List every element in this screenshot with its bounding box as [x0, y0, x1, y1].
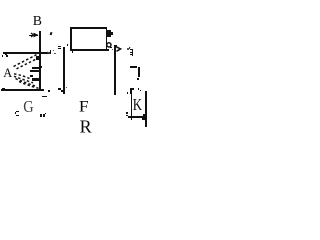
upper dashed diagonal 2 [17, 58, 39, 69]
extension line under B [39, 31, 41, 55]
hook at right line top [114, 45, 116, 47]
dash at center line bottom [58, 88, 60, 89]
tick below body bottom-left corner [72, 51, 74, 53]
tick below top line start [5, 54, 7, 56]
upper dashed diagonal 1 [14, 55, 37, 67]
motor body: bottom edge [70, 49, 109, 51]
brush dash left [30, 75, 33, 77]
tiny squiggle right of G [40, 114, 42, 117]
dots near bushing [110, 47, 112, 49]
tiny equals mark [58, 46, 61, 47]
thicker start blob of bottom line [2, 88, 5, 89]
letter A [0, 0, 150, 150]
left view top line [3, 52, 51, 54]
brush stub upper left 2 [36, 58, 39, 60]
faint dot right of line bottom [66, 87, 67, 88]
lower dashed arc 3 [16, 79, 37, 87]
small tick near rect left [67, 44, 69, 46]
terminal block [106, 30, 111, 37]
faint smudge right of chevron [127, 48, 129, 50]
dot pair right [138, 88, 140, 90]
K dimension line [128, 116, 147, 118]
lower dashed arc 2 [14, 76, 33, 83]
left view bottom line [1, 89, 44, 91]
dot pair below line start [2, 55, 4, 57]
right line nub 2 / dot [142, 118, 144, 120]
lower dashed arc 4 [19, 82, 39, 89]
dimension arrow for B [29, 35, 38, 36]
bracket shape (bar, vertical, dot) [130, 66, 138, 68]
dot right of center line top [64, 47, 65, 48]
letter B [0, 0, 150, 150]
brush stub upper left 1 [36, 56, 39, 58]
letter K [0, 0, 150, 150]
letter R [0, 0, 150, 150]
K dimension left extension line [131, 94, 133, 120]
tiny backwards-E mark [132, 49, 134, 56]
motor body rectangle: top edge [70, 27, 107, 29]
K dimension right extension line [145, 91, 147, 127]
top line right hook [50, 50, 51, 53]
dash below left view [42, 96, 47, 98]
brush bar left 1 [32, 67, 39, 69]
right line nub 1 [143, 114, 145, 116]
dot at center line bottom [61, 90, 63, 92]
bushing ring [0, 0, 150, 150]
faint diagonal dash near view corner [46, 52, 49, 55]
brush stub right [41, 66, 43, 68]
svg-text:R: R [80, 117, 92, 137]
motor body: left edge [70, 27, 72, 49]
terminal pin tick [111, 32, 113, 34]
diagonal tick above [129, 47, 131, 50]
tick mark right of B line [49, 31, 52, 35]
commutator vertical bar [39, 53, 41, 89]
center extension line [63, 47, 65, 95]
letter F [0, 0, 150, 150]
arrowhead of B dimension [0, 0, 150, 150]
dot pair between views [53, 50, 55, 52]
lower dashed arc 1 [14, 74, 30, 79]
dot below left view [48, 90, 50, 92]
right extension line [114, 45, 116, 95]
flux dashed lines (SVG) [0, 0, 150, 150]
dots left of K dimension line [126, 112, 128, 114]
tiny stacked mark left of G [15, 112, 16, 114]
small chevron mark [0, 0, 150, 150]
note flag mark [127, 92, 129, 94]
letter G [0, 0, 150, 150]
brush bar left 2 [30, 70, 39, 72]
brush bottom bar [32, 78, 41, 81]
motor body: right edge [106, 28, 108, 49]
